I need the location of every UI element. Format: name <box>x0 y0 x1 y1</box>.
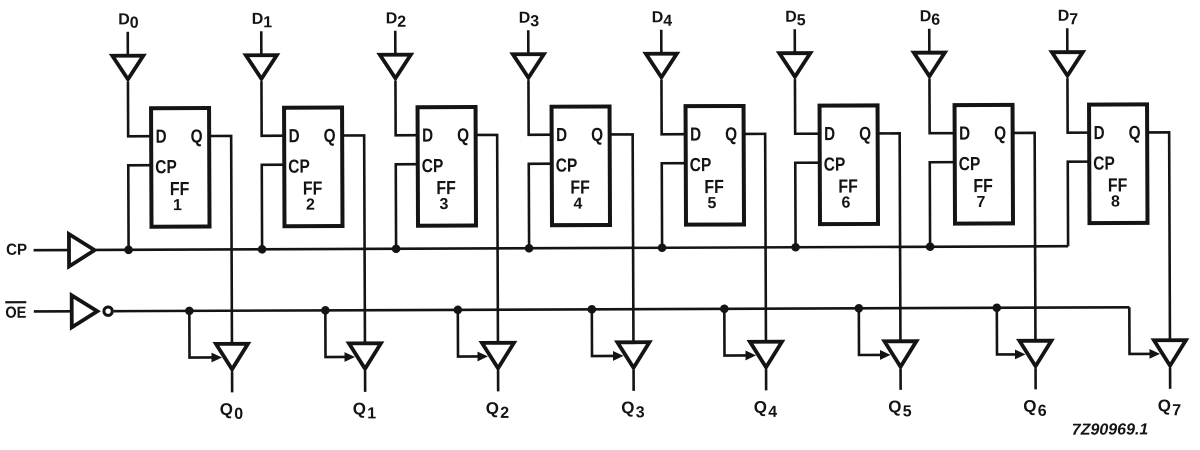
wire input buffer to FF6 pin D <box>795 79 820 134</box>
svg-text:Q: Q <box>725 124 737 145</box>
svg-text:7: 7 <box>1172 402 1181 419</box>
svg-text:D: D <box>920 8 932 25</box>
svg-text:Q: Q <box>754 398 767 417</box>
wire CP bus to FF5 pin CP <box>662 163 686 248</box>
junction CP bus / FF7 <box>926 242 935 251</box>
wire CP bus to FF6 pin CP <box>795 163 820 248</box>
wire input buffer to FF7 pin D <box>929 79 954 134</box>
svg-text:0: 0 <box>130 15 139 32</box>
3-state output buffer Q0 <box>216 344 248 370</box>
wire D7 to input buffer <box>1066 28 1069 52</box>
arrowhead Q3 enable <box>613 351 624 361</box>
wire D1 to input buffer <box>260 31 263 55</box>
wire CP bus to FF8 pin CP <box>1068 162 1090 247</box>
svg-text:Q: Q <box>220 400 233 419</box>
wire D2 to input buffer <box>394 31 397 55</box>
wire FF3 Q to output buffer <box>476 135 498 342</box>
svg-text:D: D <box>824 124 835 145</box>
svg-text:D: D <box>422 126 433 147</box>
svg-text:D: D <box>1058 8 1070 25</box>
flip-flop FF6 <box>820 105 878 224</box>
svg-text:CP: CP <box>155 157 177 178</box>
buffer D4 input <box>646 54 677 78</box>
wire OE bus to Q6 buffer enable <box>997 308 1017 355</box>
wire output buffer Q0 pin <box>231 371 234 392</box>
flip-flop FF7 <box>955 105 1013 224</box>
inverter U-OE (output enable) <box>72 295 98 327</box>
3-state output buffer Q6 <box>1019 341 1051 367</box>
3-state output buffer Q4 <box>750 342 782 368</box>
svg-text:D: D <box>289 126 300 147</box>
junction CP bus / FF5 <box>658 243 667 252</box>
svg-text:4: 4 <box>768 404 777 421</box>
wire output buffer Q5 pin <box>899 369 902 390</box>
buffer D2 input <box>380 55 411 79</box>
junction OE bus / Q5 enable <box>855 304 864 313</box>
wire input buffer to FF2 pin D <box>261 81 284 136</box>
svg-text:5: 5 <box>903 403 912 420</box>
buffer D0 input <box>112 56 143 80</box>
3-state output buffer Q7 <box>1154 340 1186 366</box>
arrowhead Q5 enable <box>880 350 891 360</box>
flip-flop FF2 <box>284 107 342 226</box>
wire FF5 Q to output buffer <box>744 134 766 341</box>
svg-text:3: 3 <box>530 13 539 30</box>
junction CP bus / FF1 <box>124 245 133 254</box>
3-state output buffer Q2 <box>482 343 514 369</box>
buffer D3 input <box>513 54 544 78</box>
svg-text:5: 5 <box>707 195 716 212</box>
svg-text:3: 3 <box>439 196 448 213</box>
junction OE bus / Q2 enable <box>454 306 463 315</box>
junction OE bus / Q1 enable <box>321 306 330 315</box>
svg-text:D: D <box>690 125 701 146</box>
svg-text:CP: CP <box>1093 154 1115 175</box>
svg-text:4: 4 <box>663 13 672 30</box>
svg-text:D: D <box>556 125 567 146</box>
svg-text:Q: Q <box>859 124 871 145</box>
wire OE input lead <box>34 310 71 313</box>
flip-flop FF5 <box>686 106 744 225</box>
svg-text:D: D <box>785 9 797 26</box>
buffer D6 input <box>914 53 945 77</box>
wire OE bus to Q2 buffer enable <box>458 310 479 357</box>
svg-text:Q: Q <box>1158 396 1171 415</box>
wire CP bus to FF4 pin CP <box>529 164 552 249</box>
junction CP bus / FF2 <box>258 245 267 254</box>
svg-text:4: 4 <box>573 196 582 213</box>
svg-text:2: 2 <box>397 14 406 31</box>
wire output buffer Q6 pin <box>1034 368 1037 389</box>
buffer D5 input <box>779 53 810 77</box>
3-state output buffer Q5 <box>884 341 916 367</box>
svg-text:Q: Q <box>1129 123 1141 144</box>
buffer U-CP (clock input) <box>69 234 95 266</box>
svg-text:CP: CP <box>6 242 27 259</box>
wire CP bus to FF1 pin CP <box>128 165 151 250</box>
wire output buffer Q1 pin <box>364 371 367 392</box>
svg-text:6: 6 <box>841 195 850 212</box>
wire input buffer to FF8 pin D <box>1067 78 1089 133</box>
junction OE bus / Q0 enable <box>185 307 194 316</box>
svg-text:CP: CP <box>824 155 846 176</box>
wire OE bus to Q0 buffer enable <box>189 311 213 358</box>
svg-text:D: D <box>118 11 130 28</box>
wire output buffer Q4 pin <box>765 369 768 390</box>
svg-text:7: 7 <box>1069 11 1078 28</box>
wire OE bus to Q5 buffer enable <box>859 308 882 355</box>
svg-text:1: 1 <box>173 197 182 214</box>
svg-text:Q: Q <box>191 127 203 148</box>
svg-text:Q: Q <box>591 125 603 146</box>
wire output buffer Q3 pin <box>632 370 635 391</box>
wire D4 to input buffer <box>660 30 663 54</box>
svg-text:1: 1 <box>263 14 272 31</box>
wire OE bus <box>114 307 1129 311</box>
wire FF8 Q to output buffer <box>1147 132 1170 339</box>
svg-text:0: 0 <box>234 406 243 423</box>
svg-text:3: 3 <box>636 404 645 421</box>
svg-text:D: D <box>1094 123 1105 144</box>
wire input buffer to FF4 pin D <box>528 80 551 135</box>
svg-text:CP: CP <box>690 155 712 176</box>
wire D6 to input buffer <box>928 29 931 53</box>
svg-text:Q: Q <box>353 399 366 418</box>
wire input buffer to FF5 pin D <box>661 80 685 135</box>
wire FF6 Q to output buffer <box>878 133 901 340</box>
arrowhead Q0 enable <box>211 353 222 363</box>
arrowhead Q7 enable <box>1149 349 1160 359</box>
svg-text:D: D <box>652 9 664 26</box>
svg-text:Q: Q <box>324 126 336 147</box>
svg-text:2: 2 <box>306 197 315 214</box>
wire CP bus to FF2 pin CP <box>262 165 285 250</box>
svg-text:6: 6 <box>931 12 940 29</box>
junction CP bus / FF3 <box>392 244 401 253</box>
junction OE bus / Q6 enable <box>993 303 1002 312</box>
svg-text:2: 2 <box>500 405 509 422</box>
flip-flop FF3 <box>418 107 476 226</box>
wire CP input lead <box>34 249 68 252</box>
svg-text:Q: Q <box>994 123 1006 144</box>
wire FF2 Q to output buffer <box>342 135 365 342</box>
svg-text:D: D <box>386 10 398 27</box>
buffer D1 input <box>246 55 277 79</box>
svg-text:8: 8 <box>1111 194 1120 211</box>
svg-text:Q: Q <box>457 126 469 147</box>
overline of OE <box>5 301 26 303</box>
svg-text:OE: OE <box>5 305 26 322</box>
buffer D7 input <box>1052 52 1083 76</box>
arrowhead Q6 enable <box>1015 349 1026 359</box>
flip-flop FF4 <box>552 106 610 225</box>
wire output buffer Q7 pin <box>1169 368 1172 389</box>
wire CP bus <box>96 246 1068 250</box>
arrowhead Q2 enable <box>477 352 488 362</box>
svg-text:7Z90969.1: 7Z90969.1 <box>1072 421 1149 438</box>
svg-text:D: D <box>959 124 970 145</box>
wire input buffer to FF3 pin D <box>395 81 417 136</box>
wire output buffer Q2 pin <box>497 370 500 391</box>
svg-text:Q: Q <box>1023 397 1036 416</box>
wire FF4 Q to output buffer <box>610 134 634 341</box>
wire D3 to input buffer <box>527 30 530 54</box>
svg-text:D: D <box>252 11 264 28</box>
3-state output buffer Q1 <box>349 343 381 369</box>
svg-text:Q: Q <box>621 398 634 417</box>
wire OE bus to Q4 buffer enable <box>724 309 747 356</box>
wire CP bus to FF7 pin CP <box>930 162 955 247</box>
svg-text:7: 7 <box>976 194 985 211</box>
flip-flop FF1 <box>151 108 209 227</box>
svg-text:CP: CP <box>556 156 578 177</box>
svg-text:1: 1 <box>367 405 376 422</box>
svg-text:CP: CP <box>288 157 310 178</box>
inverter bubble <box>104 307 112 315</box>
junction OE bus / Q3 enable <box>588 305 597 314</box>
wire input buffer to FF1 pin D <box>128 82 151 137</box>
arrowhead Q1 enable <box>344 352 355 362</box>
svg-text:D: D <box>156 127 167 148</box>
wire OE bus to Q7 buffer enable <box>1129 307 1151 354</box>
wire FF7 Q to output buffer <box>1013 133 1036 340</box>
svg-text:Q: Q <box>486 399 499 418</box>
svg-text:D: D <box>519 10 531 27</box>
svg-text:CP: CP <box>959 154 981 175</box>
flip-flop FF8 <box>1089 104 1147 223</box>
svg-text:5: 5 <box>797 12 806 29</box>
wire FF1 Q to output buffer <box>209 136 232 343</box>
junction CP bus / FF6 <box>791 243 800 252</box>
svg-text:6: 6 <box>1038 403 1047 420</box>
wire D5 to input buffer <box>793 29 796 53</box>
wire OE bus to Q3 buffer enable <box>592 309 615 356</box>
wire D0 to input buffer <box>126 32 129 56</box>
wire OE bus to Q1 buffer enable <box>325 310 346 357</box>
svg-text:CP: CP <box>422 156 444 177</box>
3-state output buffer Q3 <box>617 342 649 368</box>
junction CP bus / FF4 <box>525 244 534 253</box>
wire CP bus to FF3 pin CP <box>396 164 418 249</box>
svg-text:Q: Q <box>888 397 901 416</box>
junction OE bus / Q4 enable <box>720 305 729 314</box>
arrowhead Q4 enable <box>745 351 756 361</box>
